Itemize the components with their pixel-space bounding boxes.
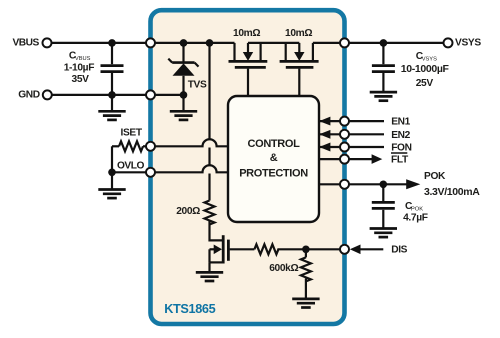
resistor 200R: [205, 201, 215, 225]
svg-text:EN1: EN1: [391, 117, 410, 128]
svg-text:1-10µF: 1-10µF: [64, 62, 95, 73]
svg-text:10-1000µF: 10-1000µF: [401, 63, 450, 75]
node dot POK: [380, 181, 388, 189]
wire POK: [319, 183, 408, 185]
pin circle EN2: [340, 130, 349, 139]
wire ISET-OVLO junction vertical: [111, 146, 113, 172]
svg-text:200Ω: 200Ω: [176, 206, 200, 217]
terminal GND: [43, 90, 52, 99]
ground below OVLO: [111, 172, 113, 189]
wire GND rail: [52, 94, 183, 96]
svg-text:OVLO: OVLO: [117, 161, 144, 172]
wire OVLO to control block with hop: [155, 165, 228, 172]
node dot CVBUS top: [108, 39, 116, 47]
svg-text:EN2: EN2: [391, 130, 410, 141]
svg-text:3.3V/100mA: 3.3V/100mA: [424, 186, 480, 198]
svg-text:CVBUS: CVBUS: [69, 51, 91, 62]
svg-text:POK: POK: [424, 171, 446, 182]
resistor 600k: [301, 249, 311, 298]
node dot TVS top: [180, 39, 188, 47]
wire resistor to DIS pin: [277, 248, 339, 250]
pin circle POK: [340, 180, 349, 189]
arrow EN2 into block: [319, 130, 330, 139]
wire EN1: [319, 120, 384, 122]
ground below CVBUS: [111, 95, 113, 111]
arrow DIS into block: [350, 245, 361, 255]
overline FLT: [391, 152, 407, 154]
wire FON: [319, 146, 384, 148]
svg-text:VBUS: VBUS: [12, 37, 39, 48]
pin circle DIS: [340, 245, 349, 254]
svg-text:GND: GND: [18, 89, 40, 100]
svg-text:TVS: TVS: [188, 80, 207, 91]
MOSFET Q2 (10 mOhm pass FET right): [280, 43, 319, 96]
resistor DIS gate: [254, 244, 278, 254]
pin circle EN1: [340, 117, 349, 126]
wire 200R to Q3 drain: [210, 221, 223, 241]
pin circle OVLO: [146, 168, 155, 177]
ground below CPOK: [370, 229, 397, 238]
pin circle VSYS on IC edge: [340, 38, 349, 47]
ground below 600k: [292, 299, 319, 308]
capacitor CVSYS: [372, 43, 395, 92]
transistor Q3 (discharge NMOS): [210, 235, 255, 272]
capacitor CPOK: [372, 184, 395, 228]
pin circle FLT: [340, 155, 349, 164]
wire ISET to control block with hop: [155, 139, 228, 146]
ground below CVSYS: [370, 92, 397, 101]
terminal VBUS: [43, 38, 52, 47]
arrow FLT out: [372, 154, 383, 164]
MOSFET Q1 (10 mOhm pass FET left): [229, 43, 268, 96]
arrow FON into block: [319, 143, 330, 152]
svg-text:35V: 35V: [72, 74, 90, 85]
capacitor CVBUS: [101, 43, 124, 95]
svg-text:DIS: DIS: [391, 245, 407, 256]
svg-text:PROTECTION: PROTECTION: [239, 167, 308, 179]
svg-text:4.7µF: 4.7µF: [403, 212, 428, 223]
pin circle ISET: [146, 142, 155, 151]
wire OVLO: [112, 171, 151, 173]
svg-text:10mΩ: 10mΩ: [233, 28, 260, 39]
wire VBUS rail left segment: [52, 42, 235, 44]
terminal VSYS: [444, 38, 453, 47]
pin circle VBUS on IC edge: [146, 38, 155, 47]
node dot TVS bottom: [180, 91, 188, 99]
ground below Q3: [196, 272, 223, 281]
wire DIS: [357, 248, 383, 250]
ground below TVS: [182, 95, 184, 111]
node dot 200R rail top: [206, 39, 214, 47]
control block: [228, 96, 319, 222]
svg-text:CVSYS: CVSYS: [416, 51, 437, 62]
wire EN2: [319, 133, 384, 135]
IC body KTS1865 outline: [151, 10, 345, 324]
wire FLT: [319, 158, 373, 160]
wire VBUS rail middle segment (between FETs): [248, 42, 299, 44]
node dot DIS: [302, 246, 310, 254]
arrow EN1 into block: [319, 117, 330, 126]
node dot VSYS cap top: [380, 39, 388, 47]
resistor ISET: [112, 141, 151, 151]
wire 200R rail vertical: [208, 43, 210, 140]
node dot OVLO: [108, 169, 116, 177]
svg-text:ISET: ISET: [121, 128, 143, 139]
svg-text:&: &: [270, 152, 278, 164]
TVS diode: [168, 43, 198, 95]
svg-text:600kΩ: 600kΩ: [269, 263, 298, 274]
svg-text:VSYS: VSYS: [455, 37, 481, 48]
pin circle FON: [340, 143, 349, 152]
pin circle GND on IC edge: [146, 90, 155, 99]
svg-text:25V: 25V: [416, 78, 434, 89]
svg-text:FLT: FLT: [391, 155, 409, 166]
wire VSYS rail right segment: [313, 42, 444, 44]
svg-text:KTS1865: KTS1865: [164, 302, 215, 316]
arrow POK out: [406, 179, 420, 189]
svg-text:CONTROL: CONTROL: [248, 138, 301, 150]
svg-text:10mΩ: 10mΩ: [285, 28, 312, 39]
node dot CVBUS bottom: [108, 91, 116, 99]
svg-text:CPOK: CPOK: [405, 201, 423, 212]
svg-text:FON: FON: [391, 143, 411, 154]
